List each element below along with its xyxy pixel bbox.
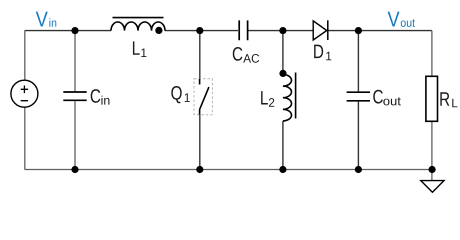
node Vin label	[36, 12, 56, 27]
wire L2 branch lower	[282, 121, 284, 170]
ground	[421, 181, 444, 193]
capacitor Cout	[347, 92, 370, 101]
label Cin	[91, 89, 110, 105]
inductor L2	[283, 75, 292, 121]
wire Cout branch upper	[357, 31, 359, 92]
junction dot bottom rail at ground	[429, 166, 436, 173]
wire top rail segment (CAC to D1)	[248, 30, 313, 32]
wire Cout branch lower	[357, 102, 359, 170]
label CAC	[233, 47, 259, 63]
junction dot bottom rail at Q1	[196, 166, 203, 173]
junction dot top rail at Cin	[71, 27, 78, 34]
wire left branch upper	[24, 31, 26, 81]
label Q1	[171, 86, 189, 103]
label L1	[133, 41, 146, 57]
node Vout label	[388, 12, 415, 27]
wire top rail left segment	[25, 30, 111, 32]
inductor L2 core bar	[295, 73, 297, 119]
wire left branch lower	[24, 107, 26, 169]
wire right branch upper (to RL)	[431, 31, 433, 77]
wire Cin branch upper	[74, 31, 76, 92]
resistor RL	[426, 76, 438, 121]
junction dot top rail at Cout	[355, 27, 362, 34]
capacitor Cin	[63, 92, 86, 100]
wire Q1 branch upper	[199, 31, 201, 79]
wire L2 branch upper	[282, 31, 284, 75]
junction dot bottom rail at L2	[279, 166, 286, 173]
voltage source V1	[11, 80, 38, 107]
wire Cin branch lower	[74, 101, 76, 169]
diode D1	[313, 21, 327, 40]
inductor L2 polarity dot	[279, 70, 286, 77]
junction dot bottom rail at Cout	[355, 166, 362, 173]
wire right branch lower (RL to ground)	[431, 121, 433, 180]
junction dot top rail at L2	[279, 27, 286, 34]
switch Q1 dashed enclosure	[194, 79, 212, 115]
label D1	[314, 45, 331, 61]
label RL	[440, 92, 457, 107]
wire Q1 branch lower	[199, 115, 201, 170]
wire top rail middle segment (L1 to CAC)	[165, 30, 238, 32]
junction dot top rail at Q1	[196, 27, 203, 34]
inductor L1	[111, 22, 165, 31]
wire top rail right segment (D1 to corner)	[328, 30, 432, 32]
wire bottom rail	[25, 169, 433, 171]
inductor L1 core bar	[113, 17, 164, 19]
capacitor CAC	[239, 20, 247, 40]
junction dot bottom rail at Cin	[71, 166, 78, 173]
label L2	[261, 91, 274, 107]
diode D1 cathode bar	[327, 20, 329, 40]
label Cout	[373, 90, 401, 106]
inductor L1 polarity dot	[155, 27, 162, 34]
switch Q1	[200, 79, 209, 115]
